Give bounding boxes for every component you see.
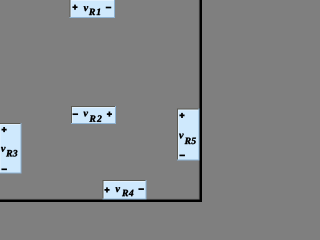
bottom black border strip [0,200,202,202]
voltage label box v_R5 [177,109,200,161]
gray figure background [0,0,202,202]
minus polarity sign of v_R1 [106,7,112,9]
voltage label box v_R1 [70,0,116,18]
bottom edge dark transition [0,199,202,200]
plus polarity sign of v_R2 [107,112,112,117]
label text v_R5 [179,134,196,144]
label text v_R1 [84,6,100,15]
plus polarity sign of v_R3 [2,127,7,132]
right edge dark transition [199,0,200,202]
voltage label box v_R4 [103,180,147,200]
label text v_R4 [116,187,134,196]
plus polarity sign of v_R1 [72,5,77,10]
voltage label box v_R3 [0,123,22,174]
minus polarity sign of v_R3 [1,168,7,170]
plus polarity sign of v_R5 [179,113,184,118]
minus polarity sign of v_R5 [179,155,185,157]
plus polarity sign of v_R4 [104,187,109,192]
voltage label box v_R2 [71,106,116,124]
label text v_R3 [1,147,17,157]
minus polarity sign of v_R2 [73,113,79,115]
right black border strip [200,0,202,202]
minus polarity sign of v_R4 [138,188,144,190]
label text v_R2 [84,112,102,122]
